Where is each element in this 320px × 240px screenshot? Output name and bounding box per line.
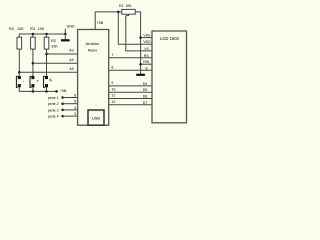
node junction SB2 bottom [32,87,35,92]
node junction SB3 bottom [45,87,48,92]
ground symbol left [61,39,70,41]
wire R4 column [18,49,20,76]
node relay3 terminal [61,109,64,112]
node junction RW [139,63,142,66]
LCD 1602 module box [152,31,187,123]
svg-text:GND: GND [67,25,75,29]
node junction A3 tap [45,53,48,56]
svg-text:D4: D4 [143,82,148,86]
node GND junction [64,29,67,39]
potentiometer R1 value label [119,4,132,8]
svg-text:R4: R4 [9,27,14,31]
svg-text:10K: 10K [125,4,132,8]
svg-text:10K: 10K [38,27,45,31]
svg-text:R3: R3 [30,27,35,31]
node junction +5V pot [117,11,120,14]
wire to pin A4 [33,62,78,64]
resistor R3 value label [30,27,45,31]
resistor R3 [31,37,36,49]
resistor R2 [44,37,49,49]
svg-text:12: 12 [111,100,115,104]
wire buttons bottom rail [19,87,56,91]
svg-text:+: + [36,78,39,83]
svg-text:D7: D7 [143,101,148,105]
svg-text:реле 3: реле 3 [48,108,59,112]
svg-text:VSS: VSS [143,34,151,38]
svg-text:5: 5 [74,100,76,104]
op-amp U1 Arduino Nano box [78,30,109,126]
USB connector [88,110,104,125]
wire R2 column [46,49,48,76]
svg-text:A4: A4 [69,58,73,62]
svg-text:LCD 1602: LCD 1602 [160,36,180,41]
svg-text:A3: A3 [69,49,73,53]
wire wiper to V0 [126,16,152,51]
wire pin12 to D7 [109,104,152,106]
svg-text:R1: R1 [119,4,124,8]
svg-text:USB: USB [92,115,101,120]
button SB2 plus [30,76,39,88]
wire relay1 to pin 6 [63,97,78,99]
potentiometer R1 [122,9,135,15]
svg-text:V0: V0 [144,47,148,51]
button SB3 K [44,76,53,88]
svg-text:10K: 10K [51,44,58,48]
wire pin9 to D4 [109,85,152,87]
svg-text:R2: R2 [51,39,56,43]
node junction R3 top [32,33,35,37]
svg-text:6: 6 [74,94,76,98]
wire pin10 to D5 [109,91,152,93]
node junction A5 tap [18,71,21,74]
node junction VSS [139,36,142,39]
node relay1 terminal [61,96,64,99]
wire +5V from Arduino top [95,12,122,30]
svg-text:VDD: VDD [143,40,151,44]
svg-text:10: 10 [111,87,115,91]
svg-text:+5B: +5B [60,89,67,93]
wire relay2 to pin 5 [63,103,78,105]
ground symbol right [136,74,145,76]
wire pin11 to D6 [109,98,152,100]
wire to pin A3 [47,53,78,55]
svg-text:K: K [49,77,52,82]
svg-text:10K: 10K [17,27,24,31]
svg-text:Nano: Nano [88,47,98,52]
button SB1 minus [16,76,24,88]
resistor R4 value label [9,27,24,31]
node +5V terminal [55,90,58,93]
wire VSS [141,37,152,39]
svg-text:Arduino: Arduino [86,41,101,46]
svg-text:RS: RS [144,54,150,58]
node junction R2 top [45,33,48,37]
wire R3 column [32,49,34,76]
wire +5V rail to VDD [118,12,152,44]
svg-text:+5B: +5B [97,21,104,25]
node relay4 terminal [61,115,64,118]
wire relay4 to pin 3 [63,115,78,117]
svg-text:A5: A5 [69,67,73,71]
svg-text:4: 4 [74,106,76,110]
svg-text:D5: D5 [143,88,148,92]
svg-text:реле 4: реле 4 [48,115,59,119]
node relay2 terminal [61,102,64,105]
wire pin7 to RS [109,57,152,59]
svg-text:D6: D6 [143,95,148,99]
svg-text:реле 2: реле 2 [48,102,59,106]
resistor R4 [17,37,22,49]
svg-text:RW: RW [143,60,150,64]
svg-text:8: 8 [111,66,113,70]
svg-text:7: 7 [111,53,113,57]
wire relay3 to pin 4 [63,109,78,111]
wire top rail to GND [19,34,65,37]
svg-text:3: 3 [74,112,76,116]
node junction A4 tap [32,62,35,65]
wire RW [141,63,152,65]
wire pin8 to E [109,69,152,71]
wire to pin A5 [19,71,77,73]
svg-text:реле 1: реле 1 [48,96,59,100]
svg-text:11: 11 [111,94,115,98]
svg-text:9: 9 [111,81,113,85]
resistor R2 value label [51,39,58,48]
wire pot right to ground rail [135,12,140,74]
